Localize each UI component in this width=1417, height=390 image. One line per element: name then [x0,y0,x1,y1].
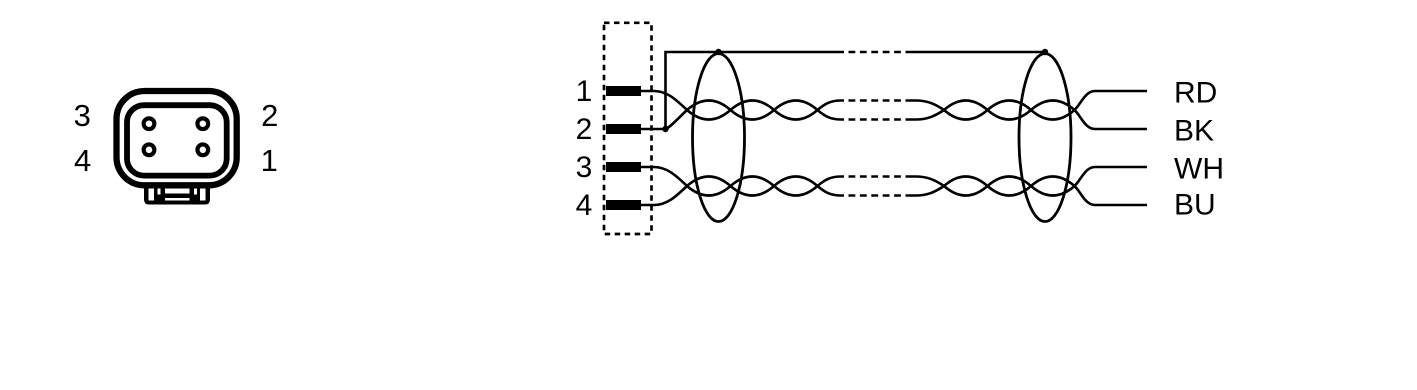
svg-text:1: 1 [576,75,593,108]
svg-text:3: 3 [74,98,91,133]
svg-text:4: 4 [74,143,91,178]
svg-text:BU: BU [1174,188,1216,221]
svg-text:3: 3 [576,151,593,184]
svg-text:RD: RD [1174,77,1217,110]
svg-text:1: 1 [261,143,278,178]
svg-text:2: 2 [576,113,593,146]
svg-text:2: 2 [261,98,278,133]
svg-text:BK: BK [1174,115,1214,148]
svg-text:4: 4 [576,189,593,222]
svg-text:WH: WH [1174,152,1224,185]
